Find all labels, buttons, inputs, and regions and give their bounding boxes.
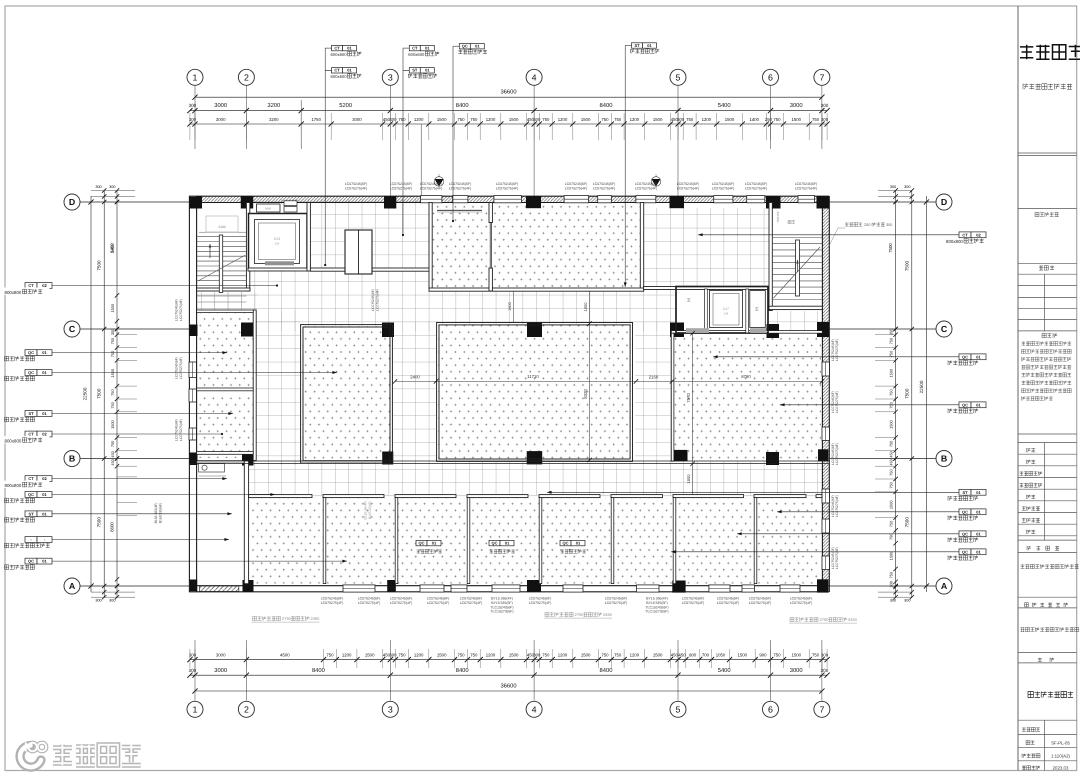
svg-text:600x600: 600x600 — [331, 74, 348, 79]
svg-text:1800: 1800 — [508, 302, 512, 310]
svg-text:QC: QC — [962, 509, 968, 514]
svg-text:D: D — [941, 197, 947, 207]
svg-text:C: C — [69, 324, 76, 334]
svg-text:LC075275(4F): LC075275(4F) — [565, 186, 588, 190]
svg-text:300: 300 — [904, 599, 910, 603]
svg-text:01: 01 — [347, 68, 352, 73]
svg-text:5200: 5200 — [339, 102, 352, 109]
svg-text:800x800: 800x800 — [5, 290, 22, 295]
svg-text:LC075275(4F): LC075275(4F) — [529, 601, 552, 605]
svg-text:ST: ST — [962, 490, 968, 495]
svg-text:ST: ST — [28, 511, 34, 516]
svg-text:LC075275(4F): LC075275(4F) — [835, 339, 839, 361]
svg-text:7500: 7500 — [888, 243, 893, 253]
svg-text:5400: 5400 — [718, 667, 731, 674]
svg-text:2750: 2750 — [575, 612, 585, 617]
svg-text:750: 750 — [398, 117, 406, 122]
svg-text:01: 01 — [976, 354, 981, 359]
svg-text:1:110(A2): 1:110(A2) — [1051, 753, 1070, 758]
svg-text:TLC1527S(6F): TLC1527S(6F) — [490, 610, 513, 614]
svg-text:01: 01 — [505, 540, 510, 545]
svg-text:LC075275(4F): LC075275(4F) — [677, 186, 700, 190]
svg-text:LC075275(4F): LC075275(4F) — [321, 601, 344, 605]
svg-text:LC075275(4F): LC075275(4F) — [496, 186, 519, 190]
svg-text:750: 750 — [542, 117, 550, 122]
svg-text:LC075275(4F): LC075275(4F) — [460, 601, 483, 605]
svg-text:3000: 3000 — [214, 102, 227, 109]
svg-text:1500: 1500 — [792, 117, 802, 122]
svg-text:7570: 7570 — [686, 393, 691, 403]
svg-text:LC075275(4F): LC075275(4F) — [717, 601, 740, 605]
svg-text:750: 750 — [110, 401, 115, 408]
svg-text:QC: QC — [462, 44, 468, 49]
svg-text:ST: ST — [28, 411, 34, 416]
svg-text:750: 750 — [457, 652, 465, 657]
svg-text:750: 750 — [888, 440, 893, 447]
svg-text:LC075275(4F): LC075275(4F) — [390, 601, 413, 605]
svg-text:01: 01 — [976, 402, 981, 407]
svg-text:01: 01 — [425, 68, 430, 73]
svg-text:02: 02 — [42, 476, 47, 481]
svg-text:750: 750 — [470, 117, 478, 122]
svg-text:450: 450 — [678, 652, 686, 657]
svg-text:02: 02 — [42, 432, 47, 437]
svg-text:1500: 1500 — [110, 303, 115, 312]
svg-text:01: 01 — [42, 492, 47, 497]
svg-text:750: 750 — [542, 652, 550, 657]
svg-text:3000: 3000 — [216, 117, 226, 122]
svg-text:800x800: 800x800 — [946, 239, 963, 244]
svg-text:D13: D13 — [274, 237, 280, 241]
svg-text:LC075275(4F): LC075275(4F) — [179, 357, 183, 379]
svg-text:6600: 6600 — [110, 522, 115, 532]
svg-text:LC075275(4F): LC075275(4F) — [427, 601, 450, 605]
svg-text:36600: 36600 — [500, 682, 516, 689]
svg-text:450: 450 — [671, 652, 679, 657]
svg-text:01: 01 — [42, 350, 47, 355]
svg-text:1: 1 — [655, 174, 657, 178]
svg-text:1200: 1200 — [342, 652, 352, 657]
svg-text:750: 750 — [398, 652, 406, 657]
svg-text:1500: 1500 — [653, 117, 663, 122]
svg-text:AHU: AHU — [265, 206, 271, 210]
svg-text:3: 3 — [388, 704, 393, 714]
svg-text:LC075275(4F): LC075275(4F) — [358, 601, 381, 605]
svg-text:2400: 2400 — [410, 375, 420, 380]
svg-text:01: 01 — [42, 511, 47, 516]
svg-text:LC075275(4F): LC075275(4F) — [449, 186, 472, 190]
svg-text:750: 750 — [812, 117, 820, 122]
svg-text:750: 750 — [773, 117, 781, 122]
svg-text:B: B — [941, 454, 947, 464]
svg-text:300: 300 — [95, 185, 101, 189]
svg-text:CT: CT — [28, 476, 34, 481]
svg-text:450: 450 — [110, 450, 115, 457]
svg-text:01: 01 — [976, 531, 981, 536]
svg-text:5450: 5450 — [110, 244, 115, 253]
svg-text:5: 5 — [676, 704, 681, 714]
svg-text:1500: 1500 — [888, 368, 893, 377]
svg-text:5: 5 — [676, 72, 681, 82]
svg-text:01: 01 — [976, 490, 981, 495]
svg-text:CT: CT — [334, 45, 340, 50]
svg-text:01: 01 — [976, 549, 981, 554]
svg-text:CT: CT — [28, 283, 34, 288]
svg-text:800x800: 800x800 — [5, 483, 22, 488]
svg-text:1500: 1500 — [437, 652, 447, 657]
svg-text:01: 01 — [425, 45, 430, 50]
svg-text:7: 7 — [819, 72, 824, 82]
svg-text:300: 300 — [890, 599, 896, 603]
svg-text:750: 750 — [457, 117, 465, 122]
svg-text:1500: 1500 — [509, 652, 519, 657]
svg-text:2: 2 — [244, 704, 249, 714]
svg-text:200: 200 — [864, 223, 870, 227]
svg-text:250: 250 — [765, 117, 773, 122]
svg-text:7: 7 — [819, 704, 824, 714]
svg-text:750: 750 — [470, 652, 478, 657]
svg-text:1: 1 — [438, 174, 440, 178]
svg-text:750: 750 — [110, 440, 115, 447]
svg-text:QC: QC — [419, 540, 425, 545]
svg-text:B165'33(6F): B165'33(6F) — [368, 501, 372, 520]
svg-text:3200: 3200 — [269, 117, 279, 122]
svg-text:750: 750 — [686, 117, 694, 122]
svg-text:LC075275(4F): LC075275(4F) — [835, 547, 839, 569]
svg-text:LC075275(4F): LC075275(4F) — [593, 186, 616, 190]
svg-text:LC075275(4F): LC075275(4F) — [635, 186, 658, 190]
svg-text:7500: 7500 — [97, 388, 102, 399]
svg-text:FM1105: FM1105 — [776, 211, 780, 222]
svg-text:300: 300 — [890, 185, 896, 189]
svg-text:1200: 1200 — [630, 652, 640, 657]
svg-text:4500: 4500 — [280, 652, 290, 657]
svg-text:1500: 1500 — [725, 117, 735, 122]
svg-text:01: 01 — [42, 411, 47, 416]
svg-text:1050: 1050 — [716, 652, 726, 657]
svg-text:700: 700 — [702, 652, 710, 657]
svg-text:4: 4 — [532, 72, 537, 82]
svg-text:3000: 3000 — [214, 667, 227, 674]
svg-text:3000: 3000 — [216, 652, 226, 657]
svg-text:3200: 3200 — [267, 102, 280, 109]
svg-text:300: 300 — [95, 599, 101, 603]
svg-text:1M: 1M — [724, 312, 729, 316]
svg-text:1M: 1M — [275, 242, 280, 246]
svg-text:1500: 1500 — [365, 652, 375, 657]
svg-text:LC075275(4F): LC075275(4F) — [795, 186, 818, 190]
svg-text:750: 750 — [888, 337, 893, 344]
svg-text:450: 450 — [888, 458, 893, 465]
svg-text:750: 750 — [888, 350, 893, 357]
svg-text:1500: 1500 — [581, 117, 591, 122]
svg-text:QC: QC — [962, 402, 968, 407]
svg-text:CT: CT — [412, 45, 418, 50]
svg-text:750: 750 — [601, 652, 609, 657]
svg-text:4: 4 — [532, 704, 537, 714]
svg-text:2100: 2100 — [218, 225, 225, 229]
svg-text:750: 750 — [110, 337, 115, 344]
svg-text:1200: 1200 — [630, 117, 640, 122]
svg-text:1500: 1500 — [581, 652, 591, 657]
svg-text:750: 750 — [888, 389, 893, 396]
svg-text:450: 450 — [110, 458, 115, 465]
svg-text:LC075275(4F): LC075275(4F) — [605, 601, 628, 605]
svg-text:SF-PL-05: SF-PL-05 — [1051, 740, 1070, 745]
svg-text:A: A — [941, 581, 948, 591]
svg-text:8320: 8320 — [583, 389, 588, 399]
svg-text:01: 01 — [42, 370, 47, 375]
svg-text:300: 300 — [109, 599, 115, 603]
svg-text:01: 01 — [42, 559, 47, 564]
svg-text:1500: 1500 — [738, 652, 748, 657]
svg-text:8400: 8400 — [600, 102, 613, 109]
svg-text:D17: D17 — [723, 307, 729, 311]
svg-text:QC: QC — [962, 354, 968, 359]
svg-text:LC075275(4F): LC075275(4F) — [179, 419, 183, 441]
svg-text:750: 750 — [614, 117, 622, 122]
svg-text:3000: 3000 — [352, 117, 362, 122]
svg-text:1: 1 — [193, 72, 198, 82]
svg-text:2: 2 — [244, 72, 249, 82]
svg-text:1200: 1200 — [558, 117, 568, 122]
svg-text:900: 900 — [759, 652, 767, 657]
svg-text:1500: 1500 — [792, 652, 802, 657]
svg-text:2450: 2450 — [848, 617, 858, 622]
svg-text:8400: 8400 — [456, 102, 469, 109]
svg-text:1200: 1200 — [558, 652, 568, 657]
svg-text:2750: 2750 — [820, 617, 830, 622]
svg-text:750: 750 — [888, 571, 893, 578]
svg-text:2160: 2160 — [649, 375, 659, 380]
svg-text:600x600: 600x600 — [331, 52, 348, 57]
svg-text:2450: 2450 — [603, 612, 613, 617]
svg-text:22500: 22500 — [83, 387, 88, 400]
svg-text:300: 300 — [904, 185, 910, 189]
svg-text:LC075275(4F): LC075275(4F) — [420, 186, 443, 190]
svg-text:LC075275(4F): LC075275(4F) — [835, 443, 839, 465]
svg-text:7500: 7500 — [904, 517, 909, 528]
svg-text:LC075275(4F): LC075275(4F) — [745, 186, 768, 190]
svg-text:6: 6 — [768, 704, 773, 714]
svg-text:11710: 11710 — [527, 374, 539, 379]
svg-text:1500: 1500 — [110, 368, 115, 377]
svg-text:300: 300 — [886, 223, 892, 227]
svg-text:1500: 1500 — [888, 551, 893, 560]
svg-text:CT: CT — [962, 232, 968, 237]
svg-text:2450: 2450 — [311, 616, 321, 621]
svg-text:2750: 2750 — [282, 616, 292, 621]
svg-text:300: 300 — [109, 185, 115, 189]
svg-text:7500: 7500 — [904, 260, 909, 271]
svg-text:6: 6 — [768, 72, 773, 82]
svg-text:750: 750 — [110, 389, 115, 396]
svg-text:B: B — [69, 454, 75, 464]
svg-text:1200: 1200 — [414, 117, 424, 122]
svg-text:1500: 1500 — [888, 419, 893, 428]
svg-text:750: 750 — [888, 520, 893, 527]
svg-text:1: 1 — [193, 704, 198, 714]
svg-text:01: 01 — [976, 509, 981, 514]
svg-text:8400: 8400 — [600, 667, 613, 674]
svg-text:LC075275(4F): LC075275(4F) — [345, 186, 368, 190]
svg-text:8780: 8780 — [741, 374, 751, 379]
svg-text:QC: QC — [563, 540, 569, 545]
svg-text:1200: 1200 — [702, 117, 712, 122]
svg-text:LC075275(4F): LC075275(4F) — [835, 495, 839, 517]
svg-text:1800: 1800 — [686, 474, 691, 484]
svg-text:LC075275(4F): LC075275(4F) — [375, 289, 379, 311]
svg-text:QC: QC — [492, 540, 498, 545]
svg-text:ST: ST — [412, 68, 418, 73]
svg-text:LC075275(4F): LC075275(4F) — [790, 601, 813, 605]
svg-text:01: 01 — [347, 45, 352, 50]
svg-text:02: 02 — [976, 232, 981, 237]
svg-text:750: 750 — [110, 350, 115, 357]
svg-text:1800: 1800 — [583, 302, 588, 312]
svg-text:QC: QC — [28, 350, 34, 355]
svg-text:8400: 8400 — [456, 667, 469, 674]
svg-text:800x800: 800x800 — [5, 438, 22, 443]
svg-text:02: 02 — [42, 283, 47, 288]
svg-text:7500: 7500 — [904, 388, 909, 399]
svg-text:1500: 1500 — [110, 419, 115, 428]
svg-text:D: D — [69, 197, 75, 207]
svg-text:300: 300 — [888, 580, 893, 587]
svg-text:QC: QC — [962, 531, 968, 536]
svg-text:C: C — [941, 324, 948, 334]
svg-text:3000: 3000 — [790, 102, 803, 109]
svg-text:1200: 1200 — [414, 652, 424, 657]
svg-text:B165'335(6F): B165'335(6F) — [158, 503, 162, 523]
svg-text:750: 750 — [614, 652, 622, 657]
svg-text:ST: ST — [634, 43, 640, 48]
svg-text:600x600: 600x600 — [408, 52, 425, 57]
svg-text:300: 300 — [189, 668, 197, 673]
svg-text:2023.03: 2023.03 — [1053, 765, 1069, 770]
svg-text:01: 01 — [647, 43, 652, 48]
svg-text:750: 750 — [888, 481, 893, 488]
svg-text:7500: 7500 — [97, 517, 102, 528]
svg-text:LC075275(4F): LC075275(4F) — [749, 601, 772, 605]
svg-text:LC075275(4F): LC075275(4F) — [682, 601, 705, 605]
svg-text:01: 01 — [432, 540, 437, 545]
svg-text:1200: 1200 — [486, 652, 496, 657]
svg-text:7500: 7500 — [97, 260, 102, 271]
svg-text:CT: CT — [28, 432, 34, 437]
svg-text:1500: 1500 — [437, 117, 447, 122]
svg-text:QC: QC — [28, 492, 34, 497]
svg-text:750: 750 — [812, 652, 820, 657]
svg-text:800: 800 — [689, 652, 697, 657]
svg-text:QC: QC — [28, 370, 34, 375]
svg-text:1500: 1500 — [653, 652, 663, 657]
svg-text:36600: 36600 — [500, 89, 516, 96]
svg-text:TLC1527S(6F): TLC1527S(6F) — [645, 610, 668, 614]
svg-text:1750: 1750 — [311, 117, 321, 122]
svg-text:750: 750 — [601, 117, 609, 122]
svg-text:1500: 1500 — [509, 117, 519, 122]
svg-text:450: 450 — [888, 450, 893, 457]
svg-text:5400: 5400 — [718, 102, 731, 109]
svg-text:LC075275(4F): LC075275(4F) — [835, 391, 839, 413]
svg-text:LC075275(4F): LC075275(4F) — [390, 186, 413, 190]
svg-text:3: 3 — [388, 72, 393, 82]
svg-text:750: 750 — [888, 469, 893, 476]
svg-text:LC075275(4F): LC075275(4F) — [712, 186, 735, 190]
svg-text:LC075275(4F): LC075275(4F) — [179, 299, 183, 321]
svg-text:1500: 1500 — [888, 500, 893, 509]
svg-text:01: 01 — [475, 44, 480, 49]
svg-text:3000: 3000 — [790, 667, 803, 674]
svg-text:8400: 8400 — [312, 667, 325, 674]
svg-text:750: 750 — [326, 652, 334, 657]
svg-text:QC: QC — [962, 549, 968, 554]
svg-text:750: 750 — [773, 652, 781, 657]
svg-text:300: 300 — [189, 103, 197, 108]
svg-text:CT: CT — [334, 68, 340, 73]
svg-text:A: A — [69, 581, 76, 591]
svg-text:1400: 1400 — [750, 117, 760, 122]
svg-text:01: 01 — [576, 540, 581, 545]
svg-text:22500: 22500 — [919, 380, 924, 393]
svg-text:1200: 1200 — [486, 117, 496, 122]
svg-text:QC: QC — [28, 559, 34, 564]
